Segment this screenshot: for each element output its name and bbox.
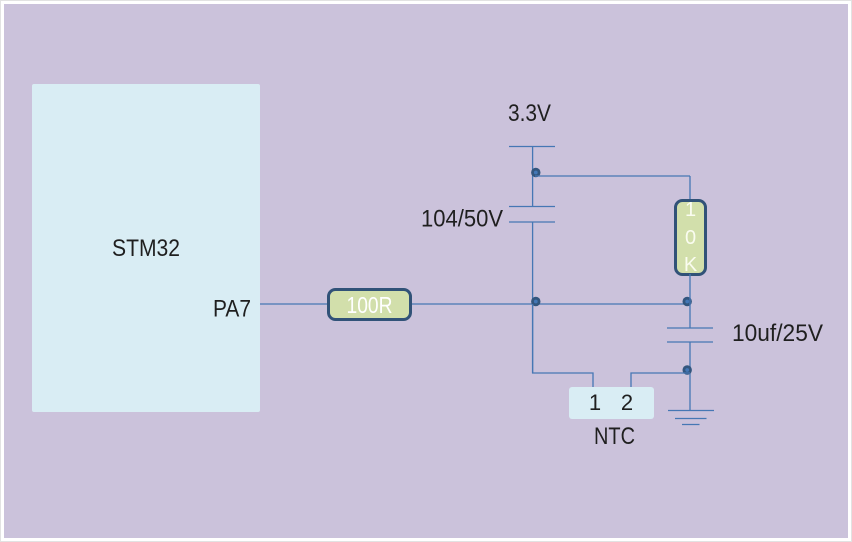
capacitor C1 top plate: [509, 206, 555, 208]
capacitor C2 bottom plate: [667, 341, 713, 343]
wire PA7 to resistor R1: [260, 303, 327, 305]
wire node B down and to NTC pin 1: [533, 304, 593, 387]
svg-text:PA7: PA7: [213, 296, 251, 323]
wire power bar to capacitor C1: [532, 147, 534, 207]
node C junction dot (main wire / 10K branch): [683, 297, 692, 306]
wire resistor R2 bottom to capacitor C2: [689, 274, 691, 328]
resistor R2 10K: [676, 199, 706, 276]
power symbol 3.3V bar: [509, 146, 555, 148]
svg-text:STM32: STM32: [112, 235, 180, 262]
svg-text:NTC: NTC: [594, 423, 635, 450]
connector J1 NTC body: [569, 387, 654, 419]
svg-text:2: 2: [621, 390, 633, 415]
node A junction dot: [531, 168, 540, 177]
node B junction dot (main wire / cap branch): [531, 297, 540, 306]
wire capacitor C1 to node B: [532, 222, 534, 373]
svg-text:10uf/25V: 10uf/25V: [732, 320, 823, 347]
svg-text:1: 1: [685, 199, 696, 221]
node D junction dot (NTC pin 2 tap): [683, 365, 692, 374]
wire node A to 10K branch: [535, 175, 690, 177]
svg-text:100R: 100R: [347, 292, 393, 318]
ground symbol: [668, 411, 714, 425]
svg-text:1: 1: [589, 390, 601, 415]
svg-text:3.3V: 3.3V: [508, 100, 551, 127]
svg-text:K: K: [684, 254, 698, 276]
resistor R1 100R: [329, 290, 411, 320]
svg-text:0: 0: [685, 227, 696, 249]
capacitor C2 top plate: [667, 327, 713, 329]
wire down to resistor R2 top: [689, 176, 691, 200]
wire capacitor C2 to ground: [689, 342, 691, 411]
wire resistor R1 to node B: [412, 303, 690, 305]
svg-text:104/50V: 104/50V: [421, 206, 503, 233]
wire NTC pin 2 up to node D: [631, 373, 690, 387]
capacitor C1 bottom plate: [509, 221, 555, 223]
IC U1 STM32 body: [32, 84, 260, 412]
